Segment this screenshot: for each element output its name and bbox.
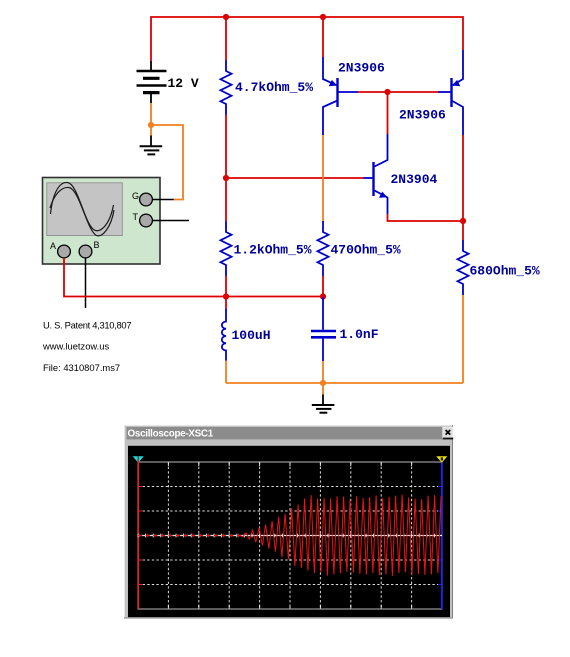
svg-text:4.7kOhm_5%: 4.7kOhm_5%: [235, 80, 313, 95]
wire Q2 collector to output node: [462, 135, 464, 240]
wire R4 to bottom rail: [462, 295, 464, 383]
svg-text:File: 4310807.ms7: File: 4310807.ms7: [43, 362, 120, 373]
capacitor C1 1.0nF: [311, 297, 336, 362]
scope right cursor line (channel B edge): [441, 457, 443, 609]
node base net junction: [384, 89, 390, 95]
transistor Q2 2N3906: [438, 50, 463, 135]
trace channel B (flat white line): [138, 534, 442, 538]
trace channel A flat lead-in (red): [138, 534, 240, 538]
svg-text:B: B: [94, 240, 100, 250]
node tank left junction: [223, 293, 229, 299]
svg-text:2N3904: 2N3904: [391, 172, 438, 187]
svg-text:A: A: [50, 241, 56, 251]
node divider junction: [223, 175, 229, 181]
svg-text:100uH: 100uH: [232, 328, 271, 343]
resistor R1 4.7kOhm: [221, 60, 232, 115]
svg-text:470Ohm_5%: 470Ohm_5%: [331, 243, 401, 258]
wire VCC to Q1 emitter: [322, 17, 324, 57]
wire R1 to divider node: [225, 115, 227, 221]
wire R3 to tank node: [225, 276, 227, 297]
svg-text:1.2kOhm_5%: 1.2kOhm_5%: [234, 243, 312, 258]
ground symbol (bottom): [312, 383, 335, 413]
terminal B: [79, 245, 92, 258]
battery V1 12V: [137, 61, 167, 103]
wire divider node to Q3 base: [226, 177, 364, 179]
scope grid vertical dashed lines: [168, 462, 411, 609]
wire tank node to L1: [225, 297, 227, 309]
close button: [443, 427, 453, 439]
scope border tick marks top: [168, 463, 411, 467]
oscilloscope icon screen: [47, 183, 123, 236]
svg-text:www.luetzow.us: www.luetzow.us: [42, 341, 109, 352]
scope left cursor line (channel A edge): [137, 457, 139, 609]
wire L1 to bottom rail: [225, 361, 227, 384]
svg-text:G: G: [132, 191, 139, 201]
stub T terminal: [152, 220, 189, 222]
terminal G: [140, 193, 153, 206]
inductor L1 100uH: [222, 309, 226, 361]
node battery ground junction: [148, 122, 154, 128]
svg-text:2N3906: 2N3906: [338, 61, 385, 76]
node top rail Q1 tap: [320, 14, 326, 20]
svg-text:U. S. Patent 4,310,807: U. S. Patent 4,310,807: [43, 320, 131, 331]
wire Q3 emitter to output node: [388, 214, 464, 221]
node bottom rail ground junction: [320, 380, 326, 386]
node tank right junction: [320, 293, 326, 299]
wire VCC to R1: [225, 17, 227, 60]
stub G terminal: [152, 199, 173, 201]
oscilloscope icon sine curve 2: [50, 187, 114, 235]
ground symbol (battery): [140, 136, 163, 155]
wire C1 to bottom rail: [322, 361, 324, 383]
wire Q1 base to Q2 base: [358, 91, 438, 93]
cursor marker 2 (yellow triangle): [436, 456, 447, 463]
svg-text:12 V: 12 V: [168, 76, 199, 91]
wire top rail VCC: [151, 17, 463, 61]
oscilloscope icon sine curve 1: [51, 182, 114, 230]
wire battery minus to ground node: [150, 103, 152, 136]
resistor R3 1.2kOhm: [221, 221, 232, 276]
cursor marker 1 (cyan triangle): [133, 456, 144, 463]
node top rail R1 tap: [223, 14, 229, 20]
wire ground node to scope G terminal: [151, 125, 183, 200]
wire R2 to tank node: [322, 276, 324, 297]
svg-text:T: T: [133, 212, 139, 222]
svg-text:1.0nF: 1.0nF: [340, 327, 379, 342]
svg-text:680Ohm_5%: 680Ohm_5%: [470, 264, 540, 279]
scope grid horizontal dashed lines: [138, 487, 442, 585]
wire base net to Q3 collector: [387, 92, 389, 134]
resistor R4 680Ohm: [458, 240, 469, 295]
transistor Q1 2N3906: [323, 57, 358, 135]
oscilloscope icon XSC1 body: [43, 178, 161, 265]
stub B terminal: [85, 258, 87, 308]
wire Q1 collector to R2: [322, 135, 324, 221]
terminal T: [140, 214, 153, 227]
oscilloscope window title bar: [127, 427, 451, 439]
wire bottom ground rail: [226, 382, 463, 384]
svg-text:2N3906: 2N3906: [399, 108, 446, 123]
resistor R2 470Ohm: [318, 221, 329, 276]
oscilloscope window frame: [124, 425, 453, 619]
node output junction: [460, 218, 466, 224]
wire scope A to tank node: [64, 258, 323, 297]
scope border tick marks bottom: [168, 605, 411, 609]
scope graticule border: [138, 462, 442, 609]
svg-text:Oscilloscope-XSC1: Oscilloscope-XSC1: [128, 429, 214, 440]
terminal A: [58, 245, 71, 258]
transistor Q3 2N3904: [364, 134, 388, 214]
scope display background: [128, 446, 450, 617]
trace channel A oscillation (red): [238, 495, 441, 576]
